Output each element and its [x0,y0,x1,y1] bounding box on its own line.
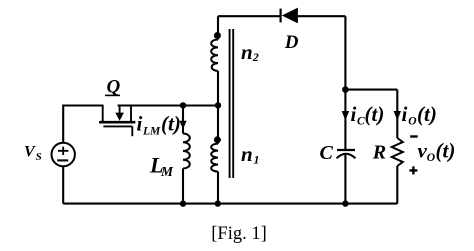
svg-text:M: M [160,164,174,179]
svg-text:D: D [284,32,299,53]
label LM [149,153,174,180]
wire R branch top [396,90,398,138]
label iC(t) [351,102,385,128]
wire bottom rail [63,203,397,205]
label D [284,32,299,53]
junction node: C/R split [342,86,349,93]
label iLM(t) [137,112,181,138]
wire left-bottom from source to bottom rail [62,166,64,203]
label C [320,142,334,164]
wire n1 bottom vertical [217,172,219,204]
wire tap vertical between windings [217,71,219,144]
inductor LM [183,134,190,169]
svg-text:(t): (t) [161,112,181,136]
label n1 [241,142,260,166]
label Q [105,77,121,98]
svg-text:[Fig. 1]: [Fig. 1] [211,224,267,244]
svg-text:n: n [241,142,253,166]
resistor R [392,138,403,166]
wire LM branch top [182,106,184,134]
wire top to diode [218,15,280,17]
svg-text:n: n [241,40,253,64]
svg-text:(t): (t) [436,139,456,163]
wire top-left from source to MOSFET [63,106,103,144]
current arrow iLM [179,121,186,129]
diode D [281,8,298,24]
wire LM branch bottom [182,169,184,204]
junction node: top of LM [180,102,186,108]
label VS [24,144,42,164]
svg-text:C: C [320,142,334,164]
capacitor C [337,150,356,158]
transformer winding n1 [211,144,218,172]
svg-text:2: 2 [252,50,259,64]
voltage source VS [52,143,75,166]
label R [372,142,386,164]
polarity dot n1 [214,136,221,143]
wire split horizontal to R branch [345,89,397,91]
svg-text:i: i [351,102,357,126]
svg-text:LM: LM [142,126,161,138]
svg-text:1: 1 [254,152,260,166]
transformer core [230,29,234,178]
polarity dot n2 [214,32,221,39]
wire R branch bottom [396,166,398,204]
junction node: transformer tap [215,102,221,108]
svg-text:O: O [408,116,416,128]
junction node: C bottom [342,200,348,206]
label iO(t) [402,102,437,128]
label vO(t) [418,139,456,165]
svg-text:Q: Q [107,77,121,98]
transformer winding n2 [211,40,218,72]
wire top-middle MOSFET to transformer tap [118,104,218,106]
current arrow iO [394,111,401,121]
output plus sign [409,166,417,174]
svg-text:R: R [372,142,386,164]
wire C branch top [344,90,346,149]
svg-text:(t): (t) [417,102,437,126]
svg-text:S: S [36,151,42,163]
wire secondary top vertical [217,16,219,39]
junction node: LM bottom [180,200,186,206]
svg-text:(t): (t) [365,102,385,126]
wire right top vertical [344,16,346,89]
transistor Q (MOSFET) [99,106,135,137]
label n2 [241,40,259,64]
caption [Fig. 1] [211,224,267,244]
svg-text:V: V [24,144,36,161]
junction node: n1 bottom [215,200,221,206]
svg-text:i: i [402,102,408,126]
svg-text:i: i [137,112,143,136]
wire diode to top-right corner [298,15,346,17]
current arrow iC [342,111,349,121]
svg-text:O: O [427,152,435,164]
wire C branch bottom [344,155,346,204]
output minus sign [410,135,418,137]
